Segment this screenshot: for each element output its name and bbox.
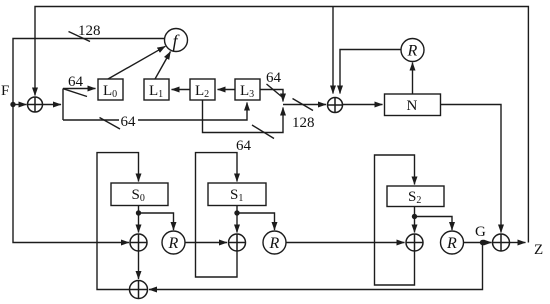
rotation R2 xyxy=(263,231,286,254)
svg-text:64: 64 xyxy=(236,138,252,154)
wire: R2 output into xor B3 xyxy=(286,242,405,244)
wire: S2 output into xor B3 xyxy=(414,207,416,233)
wire: branch from top line down into X2 xyxy=(332,7,334,94)
bus slash 64 (L3 right line) xyxy=(267,84,282,97)
wire: L0 top to function f xyxy=(108,46,165,79)
wire: merged 128-bit line into xor X2 xyxy=(283,104,326,106)
wire: top feedback line Z to X1 xyxy=(35,7,528,243)
sbox S2 xyxy=(387,186,444,207)
bus slash 128 (into X2) xyxy=(293,99,314,111)
svg-text:64: 64 xyxy=(121,114,137,130)
wire: L2 to L1 xyxy=(172,89,191,91)
register L0 xyxy=(98,79,123,100)
wire: N top to rotation R (top) xyxy=(412,63,414,95)
svg-text:R: R xyxy=(407,43,418,60)
node F junction dot xyxy=(10,102,15,107)
wire: N output to final xor X4 xyxy=(441,105,502,233)
rotation R (top) xyxy=(401,39,424,62)
wire: L3 to L2 xyxy=(218,89,236,91)
box N xyxy=(385,94,441,116)
function f circle xyxy=(165,29,188,52)
register L3 xyxy=(235,79,260,100)
wire: rotation R1t output down into X2 xyxy=(340,50,402,94)
bus slash 64 (into L0) xyxy=(64,89,88,97)
wire: B1 output into xor X5 xyxy=(138,251,140,279)
wire: 64-bit line to L3 bottom xyxy=(63,103,247,121)
sbox S0 xyxy=(111,183,168,206)
wire: branch to L0 input xyxy=(63,88,96,90)
svg-text:R: R xyxy=(168,235,179,252)
rotation R1 xyxy=(162,231,185,254)
wire: L1 top to function f xyxy=(155,52,171,80)
wire: S2 feedback loop from xor B3 bottom into S2 xyxy=(375,155,415,285)
wire: L3 right 64-bit line to merge junction xyxy=(260,90,283,102)
sbox S1 xyxy=(208,183,266,206)
wire: R3 output into final xor X4 xyxy=(463,242,492,244)
svg-text:R: R xyxy=(446,235,457,252)
node G junction dot xyxy=(480,240,485,245)
svg-text:F: F xyxy=(1,83,9,99)
label 64 (lower 64-bit line) xyxy=(119,112,138,130)
svg-text:G: G xyxy=(475,224,486,240)
wire: R1 output into xor B2 xyxy=(185,242,228,244)
node: S0 output junction dot xyxy=(136,210,141,215)
wire: S0 output into xor B1 xyxy=(138,206,140,233)
wire: X1 output to branch xyxy=(43,104,62,106)
svg-text:Z: Z xyxy=(534,242,543,258)
wire: node G feedback to xor X5 xyxy=(149,243,483,290)
svg-text:128: 128 xyxy=(292,115,315,131)
node: S2 output junction dot xyxy=(412,214,417,219)
node: S1 output junction dot xyxy=(234,210,239,215)
xor B2 xyxy=(229,234,246,251)
register L2 xyxy=(190,79,215,100)
xor X1 xyxy=(28,97,43,112)
rotation R3 xyxy=(441,231,464,254)
wire: node F arrow into xor X1 xyxy=(16,104,27,106)
xor B1 xyxy=(130,234,147,251)
bus slash 128 (f output line) xyxy=(69,32,91,42)
wire: S1 output branch into R2 xyxy=(237,213,275,230)
svg-text:128: 128 xyxy=(78,23,101,39)
xor X2 xyxy=(328,98,343,113)
wire: X4 output to Z xyxy=(510,242,526,244)
svg-text:64: 64 xyxy=(68,74,84,90)
wire: S1 feedback loop from xor B2 bottom into S1 xyxy=(196,153,238,277)
bus slash 64 (lower line) xyxy=(100,118,121,130)
svg-text:N: N xyxy=(407,98,418,114)
svg-text:64: 64 xyxy=(266,70,282,86)
xor B3 xyxy=(406,234,423,251)
wire: S2 output branch into R3 xyxy=(415,217,453,231)
wire: S0 feedback loop from xor X5 output into S0 xyxy=(97,153,139,290)
xor X4 (output) xyxy=(493,234,510,251)
wire: S0 output branch into R1 xyxy=(139,213,174,230)
wire: L2 bottom 64-bit line to merge junction xyxy=(203,100,284,133)
wire: X2 output into N xyxy=(343,104,383,106)
register L1 xyxy=(144,79,169,100)
svg-text:R: R xyxy=(269,235,280,252)
wire: f output 128-bit line to node F xyxy=(13,39,165,243)
xor X5 (bottom) xyxy=(130,281,148,299)
wire: branch vertical at x=63 xyxy=(62,89,64,121)
wire: S1 output into xor B2 xyxy=(236,206,238,233)
bus slash 64 (L2 bottom line) xyxy=(252,125,274,139)
